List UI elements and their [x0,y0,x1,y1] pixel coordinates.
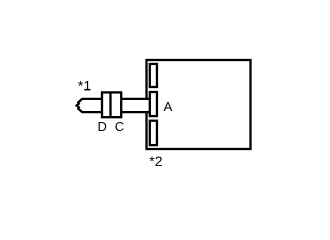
jack contact bottom [150,121,157,145]
wire shaft band-to-jack bottom line [121,111,150,113]
wire shaft band-to-jack (white gap over box edge) [121,99,150,112]
plug band divider [109,92,111,117]
svg-text:D: D [98,119,107,134]
svg-text:A: A [164,99,173,114]
plug body (bands D and C) [102,92,121,117]
plug tip [77,99,102,112]
jack contact top [150,64,157,87]
svg-text:C: C [115,119,124,134]
wire shaft band-to-jack top line [121,98,150,100]
device box [147,60,251,149]
jack contact middle (terminal A) [150,92,157,116]
svg-text:*1: *1 [78,77,91,93]
svg-text:*2: *2 [149,153,162,169]
